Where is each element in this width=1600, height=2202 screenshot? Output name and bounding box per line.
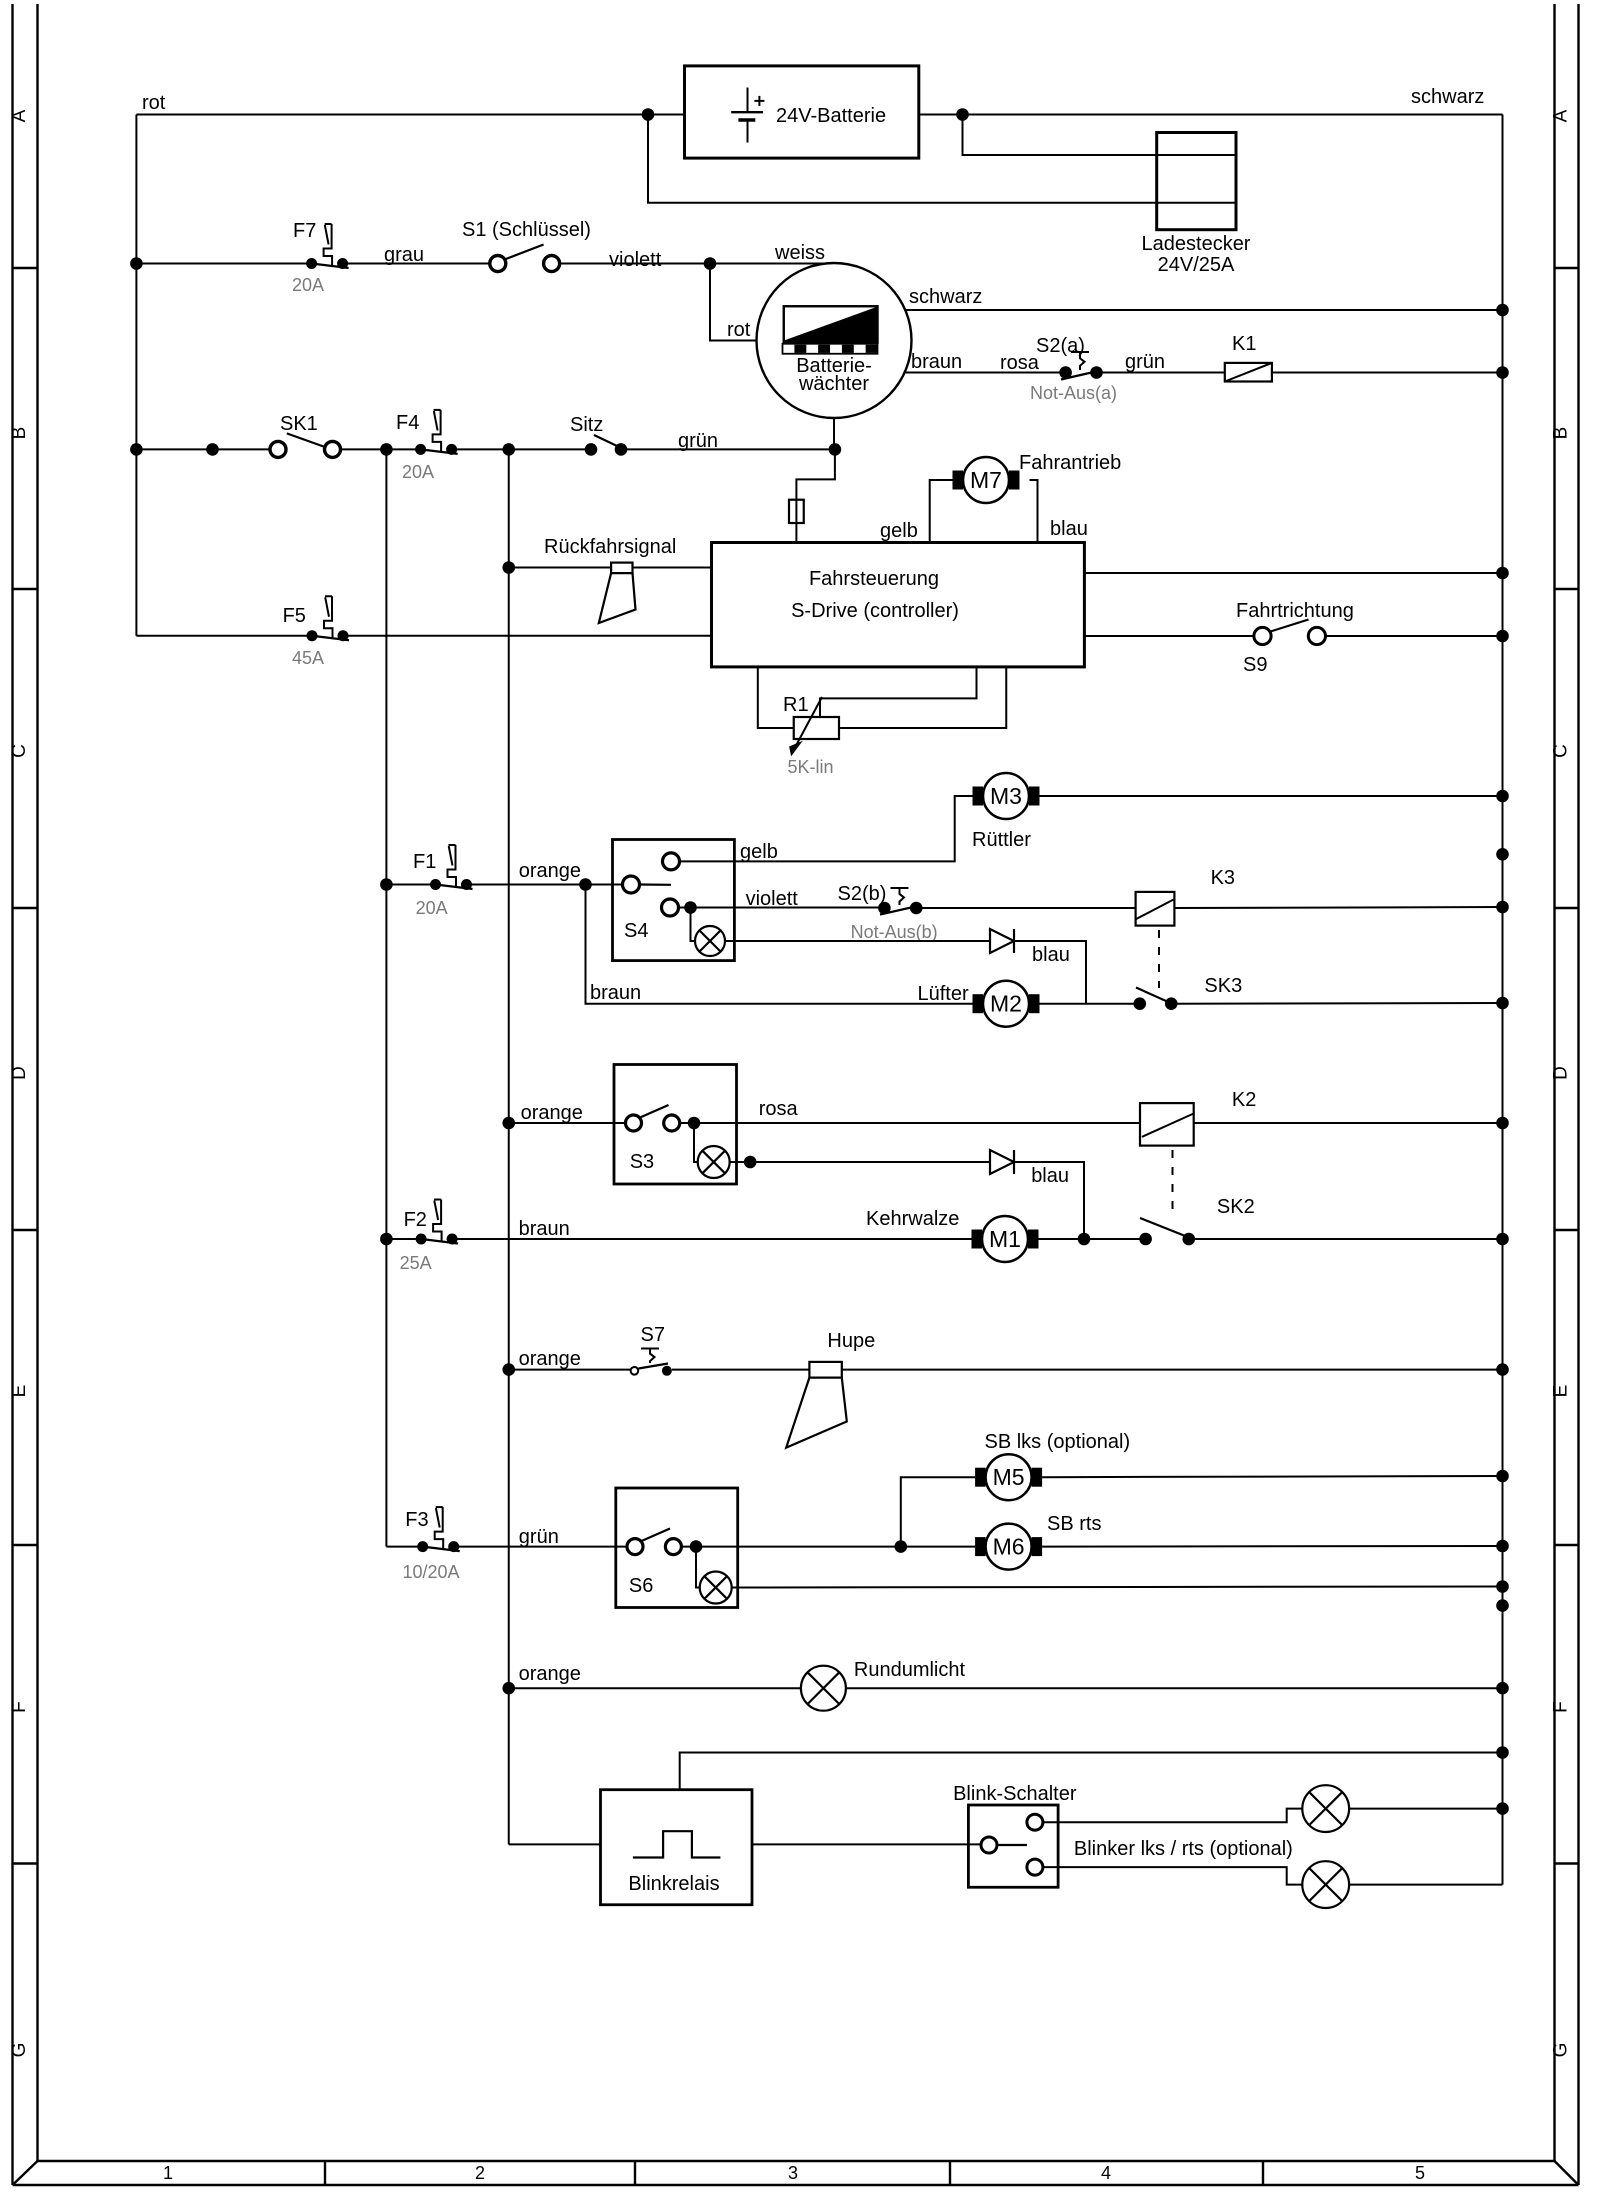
svg-text:D: D <box>9 1066 30 1080</box>
svg-text:schwarz: schwarz <box>1411 86 1484 108</box>
svg-text:M5: M5 <box>993 1464 1025 1490</box>
motor M3 Ruettler <box>972 773 1040 851</box>
svg-text:Not-Aus(b): Not-Aus(b) <box>851 922 938 942</box>
monitor Batteriewaechter <box>757 263 912 418</box>
wire M5 branch <box>901 1477 975 1546</box>
wire controller to R1 left <box>758 667 794 728</box>
controller Fahrsteuerung S-Drive <box>712 543 1085 667</box>
wire gruen to controller with fuse <box>789 449 835 542</box>
wire K3 to bus <box>1174 907 1502 908</box>
node Rundumlicht tap <box>502 1682 515 1695</box>
svg-text:S1 (Schlüssel): S1 (Schlüssel) <box>462 219 591 241</box>
svg-text:orange: orange <box>521 1102 583 1124</box>
horn Hupe <box>786 1330 875 1448</box>
node bus S9 <box>1496 630 1509 643</box>
svg-text:B: B <box>1551 427 1572 440</box>
lamp Blinker rechts <box>1302 1861 1349 1908</box>
svg-text:orange: orange <box>519 1663 581 1685</box>
wire SK1 to F4 <box>341 448 421 450</box>
svg-text:Fahrsteuerung: Fahrsteuerung <box>809 568 939 590</box>
svg-text:rosa: rosa <box>1000 352 1040 374</box>
wire S2(b) to K3 <box>922 907 1136 909</box>
svg-text:S2(a): S2(a) <box>1036 335 1085 357</box>
wire F3 feed corner <box>386 1546 422 1548</box>
relay coil K2 <box>1140 1089 1256 1146</box>
svg-text:Hupe: Hupe <box>827 1330 875 1352</box>
wire SK3 to bus <box>1171 1002 1502 1005</box>
node bus Blinker links <box>1496 1802 1509 1815</box>
svg-text:SK1: SK1 <box>280 413 318 435</box>
node Rueckfahrsignal tap <box>502 561 515 574</box>
svg-text:gelb: gelb <box>880 520 918 542</box>
svg-text:S-Drive (controller): S-Drive (controller) <box>791 600 959 622</box>
svg-text:F4: F4 <box>396 412 419 434</box>
svg-text:Lüfter: Lüfter <box>918 983 969 1005</box>
node bus SK2 <box>1496 1233 1509 1246</box>
fuse F1 20A <box>413 845 473 918</box>
connector Ladestecker 24V/25A <box>1142 133 1251 277</box>
wire Blinker rechts to bus <box>1349 1884 1502 1886</box>
wire rot (battery plus feed) <box>136 92 684 636</box>
wire M6 to bus <box>1042 1545 1502 1548</box>
wire diode D1 to M2 line <box>1014 941 1086 1004</box>
svg-text:E: E <box>9 1385 30 1398</box>
svg-text:Blinker lks / rts (optional): Blinker lks / rts (optional) <box>1074 1838 1293 1860</box>
node F2 tap <box>380 1233 393 1246</box>
svg-text:rot: rot <box>142 92 166 114</box>
svg-text:Sitz: Sitz <box>570 414 603 436</box>
svg-text:M1: M1 <box>989 1226 1021 1252</box>
svg-text:G: G <box>1551 2043 1572 2058</box>
svg-text:Not-Aus(a): Not-Aus(a) <box>1030 383 1117 403</box>
wire M5 to bus <box>1042 1476 1502 1477</box>
svg-text:24V/25A: 24V/25A <box>1158 254 1235 276</box>
svg-text:braun: braun <box>911 351 962 373</box>
svg-text:10/20A: 10/20A <box>403 1562 460 1582</box>
wire Blink-Schalter top to lamp <box>1043 1809 1302 1823</box>
svg-text:Blinkrelais: Blinkrelais <box>628 1873 719 1895</box>
node bus M3 <box>1496 790 1509 803</box>
pushbutton S2(b) Not-Aus(b) <box>838 883 938 942</box>
wire rosa S3 to K2 <box>680 1098 1140 1123</box>
node bus K2 <box>1496 1117 1509 1130</box>
wire diode D2 to M1 line <box>1014 1162 1084 1239</box>
wire S6 to M5 M6 <box>681 1546 975 1548</box>
wire Blink-Schalter bottom to lamp <box>1043 1867 1302 1885</box>
wire R1 wiper to controller <box>820 667 977 717</box>
wire braun S4 to M2 <box>586 885 973 1005</box>
wire violett <box>560 249 710 271</box>
node bus S6 lamp <box>1496 1580 1509 1593</box>
svg-text:SB lks (optional): SB lks (optional) <box>985 1431 1131 1453</box>
svg-text:2: 2 <box>475 2163 485 2183</box>
svg-text:M6: M6 <box>993 1534 1025 1560</box>
svg-text:4: 4 <box>1101 2163 1111 2183</box>
wire K1 to bus <box>1272 372 1503 374</box>
wire orange S7 <box>509 1348 631 1370</box>
svg-text:C: C <box>1551 744 1572 758</box>
wire to F2 <box>386 1238 421 1240</box>
node bus Hupe <box>1496 1363 1509 1376</box>
svg-text:K3: K3 <box>1211 867 1235 889</box>
node F1 tap <box>380 878 393 891</box>
svg-text:S2(b): S2(b) <box>838 883 887 905</box>
lamp in S4 <box>684 901 725 956</box>
svg-text:20A: 20A <box>402 462 434 482</box>
node violett/weiss junction <box>704 257 717 270</box>
node bus M5 <box>1496 1470 1509 1483</box>
wire gruen F3 to S6 <box>454 1526 627 1548</box>
svg-text:grün: grün <box>678 430 718 452</box>
svg-text:M2: M2 <box>990 991 1022 1017</box>
svg-text:S9: S9 <box>1243 654 1267 676</box>
lamp Blinker links <box>1302 1785 1349 1832</box>
wire blau M7 <box>1030 480 1088 543</box>
svg-text:1: 1 <box>163 2163 173 2183</box>
motor M7 Fahrantrieb <box>953 452 1122 503</box>
node branch vertical 2 <box>380 443 393 456</box>
wire to F1 <box>386 884 435 886</box>
switch S4 <box>613 840 735 961</box>
switch SK2 <box>1139 1196 1254 1245</box>
svg-text:24V-Batterie: 24V-Batterie <box>776 105 886 127</box>
wire M3 to bus <box>1040 795 1503 797</box>
relay Blinkrelais <box>601 1790 753 1905</box>
wire right schwarz bus <box>1502 115 1504 1885</box>
svg-text:F5: F5 <box>283 605 306 627</box>
svg-text:5: 5 <box>1415 2163 1425 2183</box>
wire Not-Aus(b) lamp to diode <box>725 940 990 942</box>
svg-text:S3: S3 <box>630 1151 654 1173</box>
svg-text:S6: S6 <box>629 1575 653 1597</box>
svg-text:D: D <box>1551 1066 1572 1080</box>
wire Blinker links to bus <box>1349 1808 1502 1810</box>
svg-text:G: G <box>9 2043 30 2058</box>
horn Rueckfahrsignal <box>599 563 636 623</box>
switch SK3 <box>1040 975 1243 1010</box>
svg-text:grau: grau <box>384 244 424 266</box>
wire schwarz battery minus bus <box>919 86 1503 115</box>
svg-text:Fahrtrichtung: Fahrtrichtung <box>1236 600 1354 622</box>
node bus schwarz <box>1496 304 1509 317</box>
wire weiss <box>710 242 834 264</box>
svg-text:schwarz: schwarz <box>909 286 982 308</box>
svg-text:rot: rot <box>727 319 751 341</box>
svg-text:SK2: SK2 <box>1217 1196 1255 1218</box>
node S3 orange tap <box>502 1117 515 1130</box>
node left bus row B tap <box>130 443 143 456</box>
relay coil K1 <box>1225 333 1272 382</box>
node M5 branch <box>895 1540 908 1553</box>
switch S3 <box>614 1065 737 1185</box>
svg-text:45A: 45A <box>292 648 324 668</box>
svg-text:grün: grün <box>1125 351 1165 373</box>
switch S1 (Schluessel) <box>462 219 591 272</box>
wire S6 lamp to bus <box>732 1587 1503 1588</box>
svg-text:F2: F2 <box>404 1209 427 1231</box>
wire to F7 <box>136 263 311 265</box>
fuse F4 20A <box>396 410 458 482</box>
wire S7 to bus <box>672 1369 1503 1371</box>
node bus stray C <box>1496 848 1509 861</box>
wire orange F1 <box>467 860 623 885</box>
svg-text:SB rts: SB rts <box>1047 1513 1101 1535</box>
wire grau <box>342 244 490 266</box>
svg-text:C: C <box>9 744 30 758</box>
pushbutton S7 <box>631 1324 672 1376</box>
wire branch vertical 3 <box>508 449 510 1844</box>
dashed link K2-SK2 <box>1172 1150 1174 1215</box>
wire schwarz monitor output <box>906 286 1503 310</box>
svg-text:25A: 25A <box>400 1253 432 1273</box>
svg-text:Rundumlicht: Rundumlicht <box>854 1659 966 1681</box>
svg-text:orange: orange <box>519 860 581 882</box>
switch S9 Fahrtrichtung <box>1236 600 1354 676</box>
node bus K1 <box>1496 366 1509 379</box>
svg-text:S7: S7 <box>641 1324 665 1346</box>
node bus controller upper <box>1496 567 1509 580</box>
svg-text:violett: violett <box>746 888 799 910</box>
svg-text:20A: 20A <box>292 275 324 295</box>
svg-text:K2: K2 <box>1232 1089 1256 1111</box>
svg-text:braun: braun <box>590 982 641 1004</box>
switch SK1 <box>270 413 341 457</box>
fuse F7 20A <box>292 220 349 295</box>
motor M2 Luefter <box>918 981 1040 1027</box>
wire monitor bottom lead <box>833 418 835 449</box>
wire S9 to bus <box>1326 635 1503 637</box>
switch Sitz <box>570 414 627 456</box>
svg-text:B: B <box>9 427 30 440</box>
wire SK2 to bus <box>1189 1238 1503 1240</box>
svg-text:M3: M3 <box>990 783 1022 809</box>
svg-text:braun: braun <box>519 1218 570 1240</box>
svg-text:gelb: gelb <box>740 841 778 863</box>
wire controller to bus upper <box>1084 572 1502 574</box>
potentiometer R1 5K-lin <box>783 694 839 777</box>
svg-text:Blink-Schalter: Blink-Schalter <box>953 1783 1077 1805</box>
svg-text:K1: K1 <box>1232 333 1256 355</box>
svg-text:blau: blau <box>1050 518 1088 540</box>
svg-text:F: F <box>1551 1701 1572 1713</box>
wire charger upper pin <box>963 115 1237 156</box>
battery 24V-Batterie <box>685 66 919 158</box>
node branch vertical 3 <box>502 443 515 456</box>
motor M5 SB lks <box>975 1431 1130 1500</box>
svg-text:F: F <box>9 1701 30 1713</box>
svg-text:M7: M7 <box>970 467 1002 493</box>
wire Rueckfahrsignal <box>509 536 712 568</box>
node left bus F7 tap <box>130 257 143 270</box>
pushbutton S2(a) Not-Aus(a) <box>1030 335 1117 403</box>
lamp in S3 <box>688 1117 730 1178</box>
wire K2 to bus <box>1194 1122 1503 1124</box>
fuse F5 45A <box>283 596 349 668</box>
wire R1 right to controller <box>839 667 1006 728</box>
svg-text:weiss: weiss <box>774 242 825 264</box>
svg-text:blau: blau <box>1031 1165 1069 1187</box>
svg-text:Kehrwalze: Kehrwalze <box>866 1208 959 1230</box>
motor M6 SB rts <box>975 1513 1101 1570</box>
svg-text:SK3: SK3 <box>1204 975 1242 997</box>
node bus SK3 <box>1496 997 1509 1010</box>
wire Blinkrelais top to bus <box>680 1753 1503 1790</box>
svg-text:F1: F1 <box>413 851 436 873</box>
wire orange S3 <box>509 1102 626 1124</box>
wire braun F2 to M1 <box>452 1218 971 1240</box>
svg-text:A: A <box>1551 109 1572 122</box>
svg-text:3: 3 <box>788 2163 798 2183</box>
wire orange to Blinkrelais <box>509 1843 601 1845</box>
fuse F2 25A <box>400 1200 459 1274</box>
switch Blink-Schalter <box>953 1783 1077 1887</box>
wire F5 feed <box>136 635 312 637</box>
svg-text:A: A <box>9 109 30 122</box>
wire row B <box>136 448 270 450</box>
wire S3 lamp to diode D2 <box>730 1156 990 1169</box>
node bus K3 <box>1496 901 1509 914</box>
svg-text:grün: grün <box>519 1526 559 1548</box>
wire gelb M7 <box>880 480 953 543</box>
node bus stray F <box>1496 1599 1509 1612</box>
wire Blinkrelais to Blink-Schalter <box>752 1843 981 1845</box>
lamp in S6 <box>690 1540 732 1603</box>
wire violett S4 <box>679 888 882 910</box>
svg-text:Ladestecker: Ladestecker <box>1142 233 1251 255</box>
node gruen junction <box>829 443 842 456</box>
svg-text:blau: blau <box>1032 944 1070 966</box>
node charger tap <box>956 108 969 121</box>
fuse F3 10/20A <box>403 1507 460 1582</box>
wire F5 to controller <box>343 635 712 637</box>
svg-text:Rückfahrsignal: Rückfahrsignal <box>544 536 676 558</box>
svg-text:F7: F7 <box>293 220 316 242</box>
wire Rundumlicht to bus <box>846 1687 1503 1689</box>
wire controller to S9 <box>1084 635 1254 637</box>
wire orange Rundumlicht <box>509 1663 801 1688</box>
wire rot to Batteriewaechter <box>710 264 757 342</box>
svg-text:rosa: rosa <box>759 1098 799 1120</box>
node bus M6 <box>1496 1540 1509 1553</box>
wire gelb S4 to M3 <box>680 796 973 863</box>
node S4 braun branch <box>579 878 592 891</box>
dashed link K3-SK3 <box>1158 930 1160 988</box>
wire gruen to K1 <box>1102 351 1225 373</box>
wire F4 to Sitz <box>452 448 591 450</box>
wire branch vertical 2 <box>385 449 387 1546</box>
lamp Rundumlicht <box>801 1659 966 1711</box>
node bus Blinkrelais <box>1496 1746 1509 1759</box>
svg-text:20A: 20A <box>416 898 448 918</box>
node bus Rundumlicht <box>1496 1682 1509 1695</box>
node battery plus junction <box>642 108 655 121</box>
svg-text:F3: F3 <box>405 1509 428 1531</box>
wire braun-rosa <box>904 351 1061 374</box>
motor M1 Kehrwalze <box>866 1208 1039 1262</box>
node M1 diode junction <box>1078 1233 1091 1246</box>
diode D2 <box>990 1150 1069 1187</box>
svg-text:orange: orange <box>519 1348 581 1370</box>
svg-text:violett: violett <box>609 249 662 271</box>
relay coil K3 <box>1136 867 1235 926</box>
node S7 orange tap <box>502 1363 515 1376</box>
diode D1 <box>990 929 1070 966</box>
switch S6 <box>616 1488 738 1608</box>
wire M1 to SK2 <box>1039 1238 1146 1240</box>
node SK1 feed <box>206 443 219 456</box>
svg-text:Rüttler: Rüttler <box>972 829 1031 851</box>
svg-text:R1: R1 <box>783 694 809 716</box>
svg-text:S4: S4 <box>624 920 648 942</box>
svg-text:Fahrantrieb: Fahrantrieb <box>1019 452 1121 474</box>
svg-text:5K-lin: 5K-lin <box>788 757 834 777</box>
svg-text:wächter: wächter <box>798 373 869 395</box>
wire battery minus to charger lower pin <box>648 115 1236 203</box>
svg-text:E: E <box>1551 1385 1572 1398</box>
wire gruen row B <box>621 430 835 452</box>
